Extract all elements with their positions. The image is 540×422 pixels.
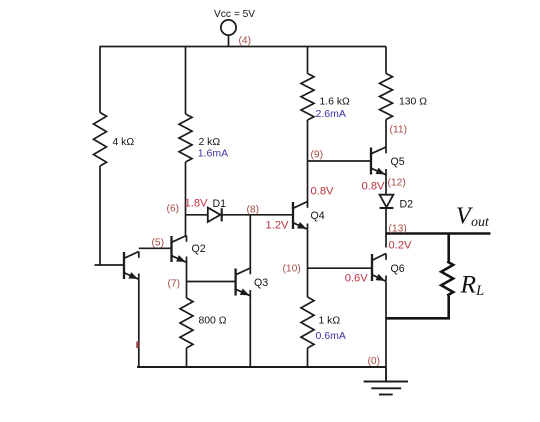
svg-text:(8): (8) bbox=[247, 205, 260, 216]
transistor Q1 (leftmost, unlabeled) bbox=[124, 252, 139, 280]
svg-text:Vcc = 5V: Vcc = 5V bbox=[214, 9, 255, 20]
svg-text:Q4: Q4 bbox=[311, 210, 325, 222]
wire node 9 to Q5 base bbox=[308, 160, 372, 162]
wire node 6 to D1 anode bbox=[186, 214, 209, 216]
resistor R 130 bbox=[380, 74, 393, 120]
wire node 6 vertical (2k to Q2 collector) bbox=[185, 162, 187, 236]
svg-text:RL: RL bbox=[460, 270, 485, 300]
svg-text:(11): (11) bbox=[390, 125, 408, 136]
wire Q2 emitter through node 7 to 800 resistor bbox=[186, 262, 188, 298]
transistor Q3 bbox=[236, 268, 251, 296]
wire top Vcc rail bbox=[100, 46, 387, 48]
transistor Q2 bbox=[172, 236, 187, 263]
svg-text:2.6mA: 2.6mA bbox=[316, 108, 346, 120]
wire RL lower lead and return to Q6 emitter bbox=[386, 296, 449, 319]
svg-text:1.6mA: 1.6mA bbox=[198, 147, 228, 159]
svg-text:(5): (5) bbox=[152, 238, 165, 249]
wire 1.6k lower lead through node 9 to Q4 collector bbox=[307, 120, 309, 202]
diode D1 bbox=[208, 208, 222, 222]
wire Q3 emitter to ground rail bbox=[249, 296, 251, 367]
wire node 5 (Q1 collector to Q2 base) bbox=[139, 247, 172, 249]
svg-text:(0): (0) bbox=[368, 356, 381, 367]
wire D2 cathode through node 13 to Q6 collector bbox=[385, 208, 387, 248]
transistor Q6 bbox=[372, 254, 386, 282]
svg-text:1.6 kΩ: 1.6 kΩ bbox=[320, 97, 351, 108]
wire 800 lower lead to ground rail bbox=[186, 348, 188, 367]
wire node 11 (130 to Q5 collector) bbox=[385, 120, 387, 148]
wire node 13 output to Vout terminal bbox=[386, 232, 491, 235]
wire bottom ground rail bbox=[137, 366, 386, 368]
svg-text:(7): (7) bbox=[168, 279, 181, 290]
svg-text:(4): (4) bbox=[239, 36, 252, 47]
svg-text:800 Ω: 800 Ω bbox=[199, 316, 227, 327]
wire Vcc stub to rail bbox=[228, 35, 230, 46]
resistor R 800 bbox=[180, 298, 193, 348]
resistor R 2k bbox=[179, 114, 192, 162]
resistor R 1k bbox=[301, 297, 314, 348]
wire D1 cathode to node 8 to Q4 base bbox=[222, 214, 293, 216]
transistor Q5 bbox=[371, 147, 386, 175]
wire node 7 to Q3 base bbox=[187, 281, 236, 283]
svg-text:1.8V: 1.8V bbox=[185, 198, 209, 210]
resistor R 4k bbox=[94, 113, 107, 167]
svg-text:Vout: Vout bbox=[456, 203, 490, 229]
svg-text:0.8V: 0.8V bbox=[311, 186, 335, 198]
wire Q5 emitter to D2 anode bbox=[385, 174, 387, 195]
stray red tick on Q1 emitter wire bbox=[136, 342, 139, 349]
svg-text:(6): (6) bbox=[167, 204, 180, 215]
wire node 8 vertical to Q3 collector bbox=[249, 215, 251, 268]
svg-text:Q2: Q2 bbox=[192, 243, 206, 255]
svg-text:D1: D1 bbox=[213, 198, 227, 210]
svg-text:0.6mA: 0.6mA bbox=[316, 330, 346, 342]
transistor Q4 bbox=[293, 202, 308, 230]
svg-text:0.8V: 0.8V bbox=[362, 181, 386, 193]
svg-text:4 kΩ: 4 kΩ bbox=[113, 137, 135, 148]
wire 4k branch upper lead bbox=[99, 47, 101, 113]
svg-text:Q5: Q5 bbox=[391, 156, 405, 168]
wire 1k lower lead to ground rail bbox=[307, 348, 309, 367]
svg-text:(9): (9) bbox=[311, 150, 324, 161]
wire Q4 emitter through node 10 to 1k resistor bbox=[307, 230, 309, 297]
Vcc supply terminal circle bbox=[221, 20, 236, 35]
svg-text:0.6V: 0.6V bbox=[345, 272, 369, 284]
wire 130 branch upper lead bbox=[385, 47, 387, 74]
svg-text:D2: D2 bbox=[400, 199, 414, 211]
svg-text:(10): (10) bbox=[283, 264, 301, 275]
svg-text:0.2V: 0.2V bbox=[389, 239, 413, 251]
resistor RL bbox=[441, 262, 453, 296]
wire 4k branch lower lead to Q1 base bbox=[95, 166, 125, 265]
svg-text:Q6: Q6 bbox=[391, 263, 405, 275]
resistor R 1.6k bbox=[301, 74, 314, 121]
wire Q1 emitter to ground rail bbox=[138, 280, 140, 368]
svg-text:130 Ω: 130 Ω bbox=[399, 97, 427, 108]
svg-text:1.2V: 1.2V bbox=[266, 220, 290, 232]
diode D2 bbox=[380, 195, 394, 208]
ground symbol bbox=[364, 367, 408, 395]
svg-text:(12): (12) bbox=[388, 178, 406, 189]
svg-text:Q3: Q3 bbox=[254, 277, 268, 289]
svg-text:(13): (13) bbox=[389, 224, 407, 235]
svg-text:1 kΩ: 1 kΩ bbox=[319, 316, 341, 327]
wire Q6 emitter to ground rail bbox=[385, 282, 387, 367]
wire RL upper lead bbox=[447, 234, 450, 262]
wire 2k branch upper lead bbox=[185, 47, 187, 115]
wire node 10 to Q6 base bbox=[308, 267, 373, 269]
wire 1.6k branch upper lead bbox=[307, 47, 309, 74]
